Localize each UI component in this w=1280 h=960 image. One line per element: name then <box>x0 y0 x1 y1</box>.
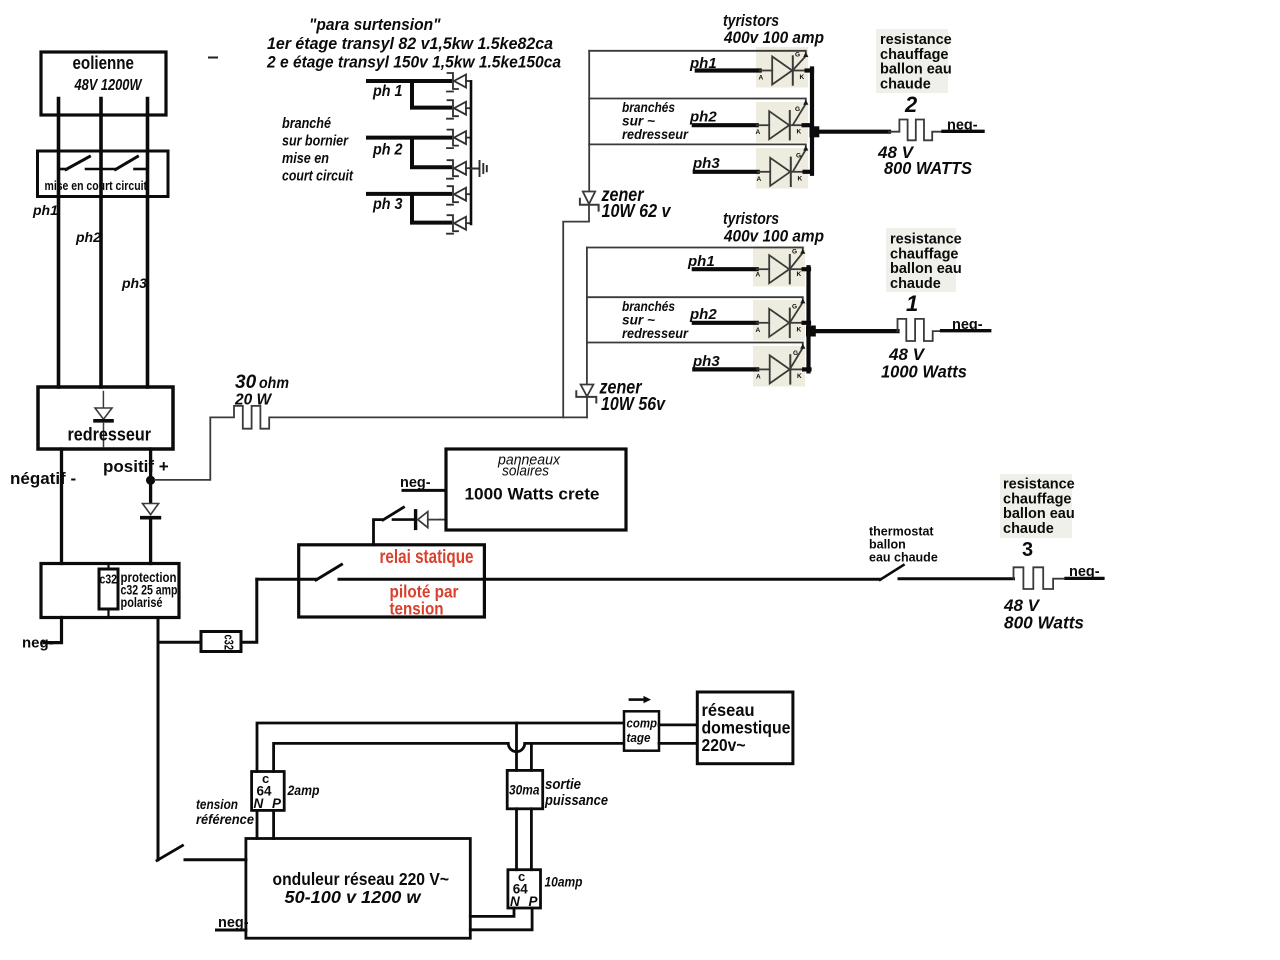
svg-text:neg-: neg- <box>1069 564 1100 580</box>
breaker C64 10amp box <box>508 870 541 908</box>
svg-text:resistance: resistance <box>1003 477 1075 493</box>
svg-text:1er étage transyl 82 v1,5kw 1: 1er étage transyl 82 v1,5kw 1.5ke82ca <box>267 34 553 53</box>
wire neg resistor R2 <box>943 130 983 133</box>
svg-text:400v 100 amp: 400v 100 amp <box>723 227 824 246</box>
transil T6 <box>447 215 471 234</box>
resistor R2 heating element <box>889 120 941 141</box>
svg-text:ohm: ohm <box>259 375 289 392</box>
transil T3 <box>447 130 471 149</box>
gate arrow marks group 1 <box>803 52 808 57</box>
thyristor background tint group 1 <box>756 47 808 88</box>
svg-text:30: 30 <box>235 372 257 393</box>
wire positif vertical <box>149 449 152 479</box>
gate wire thyristor 6 <box>587 343 803 369</box>
junction nub group 2 <box>806 326 816 337</box>
svg-text:ph3: ph3 <box>692 155 720 172</box>
svg-text:ballon: ballon <box>869 538 906 552</box>
svg-text:c32: c32 <box>222 635 237 651</box>
svg-text:K: K <box>797 129 802 136</box>
zener Z1 <box>563 192 598 418</box>
svg-text:G: G <box>793 350 798 357</box>
switch relai statique blade <box>316 565 342 581</box>
wire switch to onduleur <box>185 858 246 861</box>
svg-text:A: A <box>756 373 761 380</box>
breaker c32 inside protection <box>107 564 109 617</box>
svg-text:ballon eau: ballon eau <box>880 62 952 78</box>
wire node to 30ohm resistor (thin) <box>155 417 210 480</box>
svg-text:redresseur: redresseur <box>622 326 689 341</box>
svg-text:court circuit: court circuit <box>282 169 354 185</box>
svg-text:1: 1 <box>906 291 918 316</box>
output wire group 2 <box>811 329 898 333</box>
svg-text:K: K <box>798 175 803 182</box>
box redresseur <box>38 387 173 449</box>
svg-text:eolienne: eolienne <box>73 53 135 73</box>
svg-text:50-100 v 1200 w: 50-100 v 1200 w <box>285 887 422 907</box>
box reseau domestique <box>697 692 793 764</box>
svg-text:neg-: neg- <box>22 635 54 652</box>
svg-text:ph3: ph3 <box>121 275 147 291</box>
svg-text:G: G <box>792 249 797 256</box>
svg-text:onduleur réseau 220 V~: onduleur réseau 220 V~ <box>273 869 450 889</box>
thyristor background tint group 2 <box>753 246 805 287</box>
box protection c32 <box>41 564 179 618</box>
wire ph1 vertical eolienne to redresseur <box>57 99 61 388</box>
diode D3 <box>414 511 417 529</box>
box panneaux solaires <box>446 449 626 530</box>
wire transil common rail <box>470 81 473 224</box>
svg-text:neg-: neg- <box>400 475 431 491</box>
gate wire thyristor 4 <box>587 248 803 269</box>
svg-text:2: 2 <box>904 92 918 117</box>
wire node to diode D2 <box>149 480 152 503</box>
wire C64 2amp to onduleur <box>257 810 274 838</box>
wire control line left segment <box>257 578 317 581</box>
svg-text:"para surtension": "para surtension" <box>309 15 441 34</box>
svg-text:puissance: puissance <box>544 793 608 809</box>
svg-text:resistance: resistance <box>890 232 962 248</box>
svg-text:chauffage: chauffage <box>880 47 949 63</box>
wire ph2 vertical eolienne to redresseur <box>99 99 103 388</box>
gate wire thyristor 1 <box>589 51 806 70</box>
wire solar branch vertical <box>374 520 383 545</box>
svg-text:positif +: positif + <box>103 457 169 476</box>
transil T4 <box>447 160 471 179</box>
svg-text:800 Watts: 800 Watts <box>1004 613 1084 633</box>
svg-text:10W 62 v: 10W 62 v <box>602 201 672 221</box>
thyristor Q6 <box>694 355 809 383</box>
resistor R1 heating element <box>898 319 942 341</box>
cathode rail group 1 <box>810 69 814 174</box>
box mise en court circuit <box>38 151 169 197</box>
svg-text:relai statique: relai statique <box>380 547 474 568</box>
box relai statique <box>299 545 485 617</box>
svg-text:neg-: neg- <box>952 317 983 333</box>
thyristor Q5 <box>694 309 809 337</box>
svg-text:c32: c32 <box>100 572 118 587</box>
svg-text:redresseur: redresseur <box>68 425 152 445</box>
svg-text:branché: branché <box>282 116 331 132</box>
halo resistance 3 text <box>1000 474 1072 538</box>
halo resistance 1 text <box>886 228 956 292</box>
breaker c32 inline box <box>201 632 241 652</box>
node positif junction dot <box>146 476 155 485</box>
switch S2 mise en court circuit <box>116 157 138 170</box>
gate wire thyristor 3 <box>589 144 806 171</box>
svg-text:sortie: sortie <box>545 777 581 793</box>
svg-text:mise en: mise en <box>282 151 329 167</box>
wire C64 2amp top left <box>257 723 624 772</box>
wire positif below protection down to inverter switch <box>157 618 160 860</box>
wire negatif vertical <box>60 449 63 564</box>
svg-text:tension: tension <box>196 796 238 812</box>
svg-text:ph 3: ph 3 <box>372 196 402 213</box>
svg-text:A: A <box>756 272 761 279</box>
switch S1 mise en court circuit <box>59 168 68 171</box>
breaker C64 2amp box <box>252 772 285 811</box>
svg-text:2 e étage transyl 150v 1,5kw 1: 2 e étage transyl 150v 1,5kw 1.5ke150ca <box>266 53 561 72</box>
svg-text:resistance: resistance <box>880 32 952 48</box>
svg-text:K: K <box>797 373 802 380</box>
gate rail group 1 <box>588 51 590 192</box>
svg-text:A: A <box>757 176 762 183</box>
breaker 30ma box <box>507 770 543 808</box>
svg-text:K: K <box>797 326 802 333</box>
wire 30ma verticals above <box>517 723 532 770</box>
svg-text:3: 3 <box>1022 539 1033 561</box>
wire ph3 vertical eolienne to redresseur <box>146 99 150 388</box>
ground <box>471 161 487 176</box>
svg-text:eau chaude: eau chaude <box>869 551 938 565</box>
diode D2 <box>143 504 159 515</box>
diode D1 inside redresseur <box>102 392 104 408</box>
thyristor Q1 <box>697 56 812 84</box>
wire ph1 to transil T1 <box>368 81 450 108</box>
wire branch to c32 breaker <box>158 641 201 644</box>
svg-text:sur bornier: sur bornier <box>282 134 349 150</box>
wire neg resistor R1 <box>942 329 990 332</box>
zener Z2 <box>576 385 596 418</box>
junction nub group 1 <box>810 126 820 137</box>
wire neg onduleur <box>217 929 246 932</box>
wire control line middle segment <box>339 578 880 581</box>
wire ph2 to transil T3 <box>368 138 450 168</box>
svg-text:mise en court circuit: mise en court circuit <box>45 179 148 193</box>
wire comptage to reseau <box>659 725 697 744</box>
svg-text:N: N <box>254 796 264 811</box>
stray dash mark <box>208 57 218 59</box>
transil T1 <box>447 73 471 92</box>
svg-text:30ma: 30ma <box>509 783 540 798</box>
svg-text:A: A <box>756 327 761 334</box>
svg-text:ballon eau: ballon eau <box>1003 506 1075 522</box>
svg-text:ph2: ph2 <box>75 229 101 245</box>
svg-text:chauffage: chauffage <box>1003 491 1072 507</box>
gate arrow marks group 2 <box>800 249 805 254</box>
wire C64 2amp top right with hop <box>274 743 624 771</box>
output wire group 1 <box>814 130 889 134</box>
svg-text:20 W: 20 W <box>234 392 273 409</box>
svg-text:800 WATTS: 800 WATTS <box>884 158 972 178</box>
switch inverter input blade <box>157 846 183 861</box>
svg-text:400v 100 amp: 400v 100 amp <box>723 28 824 47</box>
svg-text:référence: référence <box>196 811 254 827</box>
transil T5 <box>447 186 471 205</box>
svg-text:1000 Watts: 1000 Watts <box>881 362 967 382</box>
svg-text:tage: tage <box>627 730 651 745</box>
svg-text:2amp: 2amp <box>287 783 320 798</box>
gate wire thyristor 5 <box>587 297 803 322</box>
svg-text:négatif -: négatif - <box>10 469 76 488</box>
wire neg resistor R3 <box>1066 577 1103 580</box>
thyristor Q4 <box>694 255 809 283</box>
cathode rail group 2 <box>806 267 810 371</box>
svg-text:G: G <box>792 304 797 311</box>
svg-text:thermostat: thermostat <box>869 525 934 539</box>
svg-text:G: G <box>795 106 800 113</box>
svg-text:chaude: chaude <box>1003 521 1054 537</box>
box onduleur <box>246 839 470 939</box>
wire control line right segment <box>899 577 1014 580</box>
svg-text:ph2: ph2 <box>689 109 717 126</box>
thyristor Q2 <box>694 111 809 139</box>
wire 30ma to C64 10amp <box>517 809 532 870</box>
resistor R3 heating element <box>1014 567 1067 589</box>
svg-text:A: A <box>756 129 761 136</box>
svg-text:1000 Watts crete: 1000 Watts crete <box>465 485 600 504</box>
wire c32 to control line <box>241 579 257 642</box>
thyristor Q3 <box>695 158 810 186</box>
svg-text:10W 56v: 10W 56v <box>601 394 666 414</box>
svg-text:chaude: chaude <box>880 76 931 92</box>
svg-text:ph 2: ph 2 <box>372 142 402 159</box>
svg-text:chaude: chaude <box>890 276 941 292</box>
switch solar blade <box>383 507 404 520</box>
svg-text:ballon eau: ballon eau <box>890 261 962 277</box>
box eolienne (wind turbine) <box>41 52 166 115</box>
gate rail group 2 <box>586 248 588 385</box>
wire switch to diode D3 <box>393 518 414 521</box>
halo resistance 2 text <box>876 29 948 93</box>
svg-text:K: K <box>797 271 802 278</box>
wire neg panneaux <box>403 489 446 492</box>
svg-text:A: A <box>759 75 764 82</box>
wire neg bottom left <box>44 618 62 643</box>
svg-text:ph2: ph2 <box>689 306 717 323</box>
switch thermostat blade <box>880 565 904 580</box>
svg-text:ph 1: ph 1 <box>372 83 402 100</box>
svg-text:G: G <box>795 52 800 59</box>
gate wire thyristor 2 <box>589 99 806 125</box>
svg-text:220v~: 220v~ <box>702 735 746 755</box>
wire C64 10amp to onduleur right <box>470 908 532 930</box>
arrow comptage <box>630 698 643 701</box>
svg-text:10amp: 10amp <box>545 875 583 890</box>
svg-text:redresseur: redresseur <box>622 127 689 142</box>
svg-text:P: P <box>272 796 282 811</box>
svg-text:tyristors: tyristors <box>723 209 779 228</box>
svg-text:comp: comp <box>627 716 658 731</box>
svg-text:ph1: ph1 <box>32 202 58 218</box>
svg-text:tension: tension <box>390 599 444 619</box>
svg-text:polarisé: polarisé <box>121 595 163 610</box>
resistor 30 ohm <box>210 406 587 429</box>
transil T2 <box>447 100 471 119</box>
svg-text:48V 1200W: 48V 1200W <box>74 77 143 94</box>
svg-text:K: K <box>800 74 805 81</box>
wire ph3 to transil T5 <box>368 194 450 223</box>
box comptage <box>624 711 659 750</box>
svg-text:chauffage: chauffage <box>890 246 959 262</box>
svg-text:G: G <box>796 153 801 160</box>
svg-text:neg-: neg- <box>947 118 978 134</box>
svg-text:solaires: solaires <box>502 464 549 480</box>
